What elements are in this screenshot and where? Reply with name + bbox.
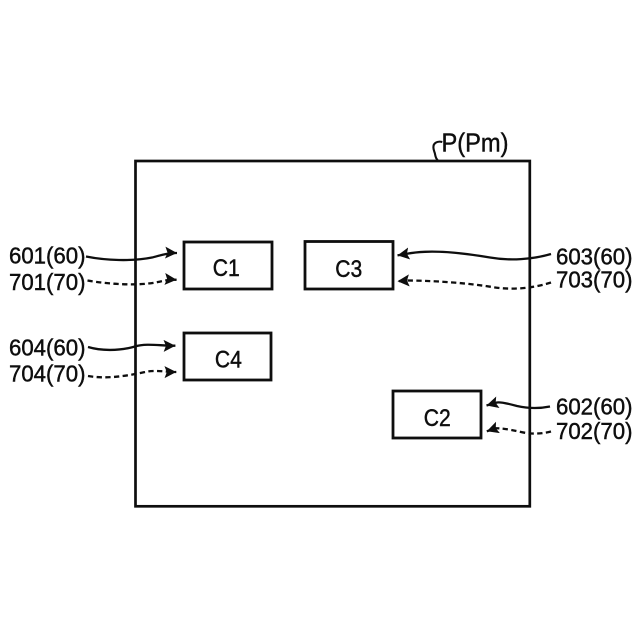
svg-text:C4: C4 — [215, 347, 242, 374]
svg-text:604(60): 604(60) — [9, 335, 86, 361]
svg-text:703(70): 703(70) — [556, 266, 633, 292]
svg-text:702(70): 702(70) — [556, 418, 633, 444]
svg-text:603(60): 603(60) — [556, 243, 633, 269]
svg-text:601(60): 601(60) — [9, 243, 86, 269]
svg-text:C1: C1 — [213, 255, 240, 282]
svg-text:C3: C3 — [335, 256, 362, 283]
svg-text:P(Pm): P(Pm) — [442, 128, 509, 158]
svg-text:704(70): 704(70) — [9, 361, 86, 387]
svg-text:602(60): 602(60) — [556, 394, 633, 420]
svg-text:701(70): 701(70) — [9, 269, 86, 295]
svg-text:C2: C2 — [424, 405, 451, 432]
